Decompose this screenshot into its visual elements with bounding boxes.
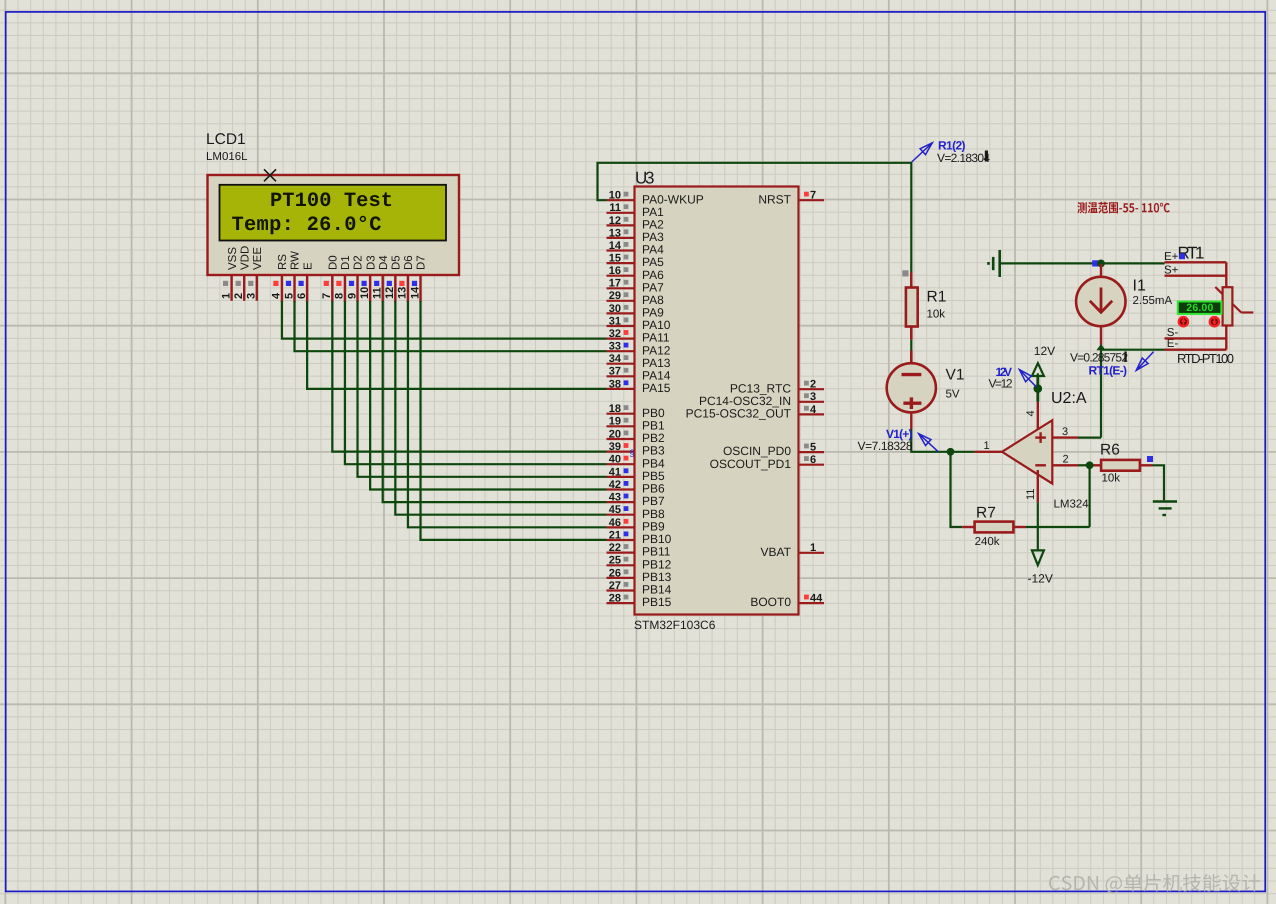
svg-text:VSS: VSS — [227, 247, 239, 270]
svg-text:5V: 5V — [946, 388, 960, 400]
LCD pin 5 RW — [283, 251, 301, 302]
U3 pin 4 PC15-OSC32_OUT — [686, 404, 824, 421]
svg-text:25: 25 — [609, 555, 621, 567]
voltage probe arrow V1(+) — [919, 434, 938, 452]
svg-text:240k: 240k — [975, 536, 1000, 548]
wire pin3 to RT1(E-) net — [1078, 437, 1101, 439]
voltage probe arrow RT1(E-) — [1136, 352, 1153, 371]
U2:A pin 3 stub (+) — [1052, 436, 1078, 438]
svg-text:28: 28 — [609, 593, 621, 605]
svg-text:LM324: LM324 — [1054, 499, 1090, 511]
LCD origin X marker — [264, 169, 276, 181]
svg-text:D3: D3 — [365, 255, 377, 270]
ground symbol left (E+ rail) — [987, 250, 1000, 277]
svg-text:R6: R6 — [1100, 442, 1120, 459]
svg-text:V=0.285752: V=0.285752 — [1070, 351, 1128, 365]
wire LCD E to PA15 — [307, 301, 606, 389]
svg-text:-12V: -12V — [1028, 572, 1053, 586]
U3 pin 42 PB6 — [607, 479, 666, 496]
svg-text:43: 43 — [609, 492, 621, 504]
svg-text:40: 40 — [609, 454, 621, 466]
blue terminal square at RT1 E+ — [1179, 253, 1185, 259]
svg-text:10: 10 — [609, 190, 621, 202]
wire PA0 net to R1 (node R1(2)) — [598, 163, 912, 288]
svg-text:V=2.18304: V=2.18304 — [937, 151, 990, 165]
LCD pin 6 E — [296, 262, 314, 302]
svg-text:8: 8 — [334, 293, 346, 299]
svg-text:5: 5 — [283, 293, 295, 299]
svg-text:E-: E- — [1167, 338, 1179, 350]
svg-text:13: 13 — [397, 287, 409, 299]
svg-text:Temp: 26.0°C: Temp: 26.0°C — [232, 214, 382, 237]
RT1 up button — [1179, 317, 1188, 326]
U3 pin 3 PC14-OSC32_IN — [699, 391, 824, 408]
junction dot V1(+) node — [947, 448, 955, 456]
svg-text:45: 45 — [609, 504, 621, 516]
svg-text:12V: 12V — [1034, 344, 1055, 358]
LCD pin 12 D5 — [384, 255, 402, 302]
svg-text:2: 2 — [1063, 454, 1069, 466]
U3 pin 26 PB13 — [607, 567, 672, 584]
svg-text:16: 16 — [609, 265, 621, 277]
svg-text:3: 3 — [1062, 426, 1068, 438]
svg-text:41: 41 — [609, 466, 621, 478]
RT1 RTD-PT100 body — [1165, 262, 1254, 349]
svg-text:1: 1 — [220, 293, 232, 299]
svg-text:29: 29 — [609, 290, 621, 302]
RT1 down button — [1210, 317, 1219, 326]
svg-text:39: 39 — [609, 441, 621, 453]
svg-text:RT1: RT1 — [1178, 243, 1205, 262]
LCD pin 4 RS — [271, 254, 289, 302]
battery V1 5V — [887, 363, 936, 412]
V1 bottom pin stub — [910, 412, 912, 429]
U3 pin 44 BOOT0 — [750, 593, 824, 610]
svg-text:13: 13 — [609, 227, 621, 239]
svg-text:U3: U3 — [635, 169, 655, 188]
svg-text:21: 21 — [609, 529, 621, 541]
wire I1 bottom to E- node — [1100, 345, 1102, 350]
LCD pin 10 D3 — [359, 255, 377, 302]
svg-text:19: 19 — [609, 416, 621, 428]
svg-text:OSCOUT_PD1: OSCOUT_PD1 — [710, 457, 792, 471]
svg-text:11: 11 — [1025, 489, 1037, 500]
svg-text:LM016L: LM016L — [206, 151, 248, 163]
U3 pin 25 PB12 — [607, 555, 672, 572]
svg-text:D2: D2 — [353, 255, 365, 270]
op-amp U2:A LM324 triangle — [1002, 420, 1052, 483]
U3 pin 20 PB2 — [607, 428, 666, 445]
svg-text:34: 34 — [609, 353, 622, 365]
svg-text:RW: RW — [290, 251, 302, 270]
wire LCD D5 to PB8 — [395, 301, 606, 515]
svg-text:R1: R1 — [927, 289, 947, 306]
LCD pin 9 D2 — [346, 255, 364, 302]
svg-text:U2:A: U2:A — [1051, 390, 1087, 407]
svg-text:3: 3 — [810, 391, 816, 403]
svg-text:22: 22 — [609, 542, 621, 554]
svg-text:PT100 Test: PT100 Test — [270, 190, 393, 213]
resistor R6 10k — [1101, 460, 1140, 471]
svg-text:RTD-PT100: RTD-PT100 — [1177, 351, 1234, 366]
resistor R1 — [906, 288, 918, 327]
U2:A pin 4 stub (V+) — [1037, 402, 1039, 430]
svg-text:V=7.18328: V=7.18328 — [858, 439, 913, 453]
U2:A pin 11 stub (V-) — [1037, 470, 1039, 502]
LCD green screen — [220, 185, 447, 241]
V1 top pin stub — [910, 351, 913, 365]
ground symbol right — [1153, 502, 1177, 516]
LCD pin 14 D7 — [409, 255, 427, 302]
svg-text:5: 5 — [810, 442, 816, 454]
svg-text:1: 1 — [984, 440, 990, 452]
svg-text:RS: RS — [277, 254, 289, 270]
U3 pin 14 PA4 — [607, 240, 665, 257]
U3 pin 21 PB10 — [607, 529, 672, 546]
U3 pin 22 PB11 — [607, 542, 671, 559]
svg-text:32: 32 — [609, 328, 621, 340]
resistor R7 240k — [975, 522, 1014, 533]
U3 pin 37 PA14 — [607, 366, 671, 383]
svg-text:31: 31 — [609, 315, 621, 327]
U3 pin 39 PB3 — [607, 441, 666, 458]
LCD pin 8 D1 — [334, 255, 352, 302]
svg-text:§: § — [630, 448, 635, 458]
svg-text:V1: V1 — [946, 366, 965, 383]
svg-text:D1: D1 — [340, 255, 352, 270]
wire R1 to V1 — [910, 340, 912, 351]
svg-text:15: 15 — [609, 253, 621, 265]
R1 bottom pin stub — [910, 326, 913, 340]
svg-text:RT1(E-): RT1(E-) — [1089, 364, 1128, 378]
svg-text:VDD: VDD — [239, 246, 251, 270]
LCD pin 2 VDD — [233, 246, 251, 301]
svg-text:D5: D5 — [391, 255, 403, 270]
svg-text:11: 11 — [609, 202, 621, 214]
wire LCD RS to PA11 — [282, 301, 607, 339]
svg-text:14: 14 — [609, 240, 622, 252]
wire R7 right to pin2 node — [1026, 526, 1090, 528]
svg-text:7: 7 — [810, 190, 816, 202]
wire LCD D7 to PB10 — [421, 301, 607, 540]
U2:A output pin 1 stub — [975, 451, 1002, 453]
wire LCD RW to PA12 — [295, 301, 607, 351]
U3 pin 41 PB5 — [607, 466, 666, 483]
R6 left pin stub — [1092, 464, 1102, 466]
svg-text:26.00: 26.00 — [1186, 302, 1213, 314]
svg-text:LCD1: LCD1 — [206, 131, 246, 148]
svg-text:46: 46 — [609, 517, 621, 529]
RT1 temperature display 26.00 — [1178, 302, 1222, 315]
U3 pin 46 PB9 — [607, 517, 666, 534]
svg-text:D4: D4 — [378, 255, 390, 270]
U3 pin 13 PA3 — [607, 227, 665, 244]
svg-text:9: 9 — [346, 293, 358, 299]
svg-text:10k: 10k — [1102, 473, 1121, 485]
svg-text:6: 6 — [810, 454, 816, 466]
svg-text:D7: D7 — [416, 255, 428, 270]
junction dot 12V probe point — [1034, 384, 1043, 393]
junction dot pin2 node — [1086, 461, 1094, 469]
svg-text:S-: S- — [1167, 327, 1179, 339]
svg-text:37: 37 — [609, 366, 621, 378]
svg-text:PB15: PB15 — [642, 595, 672, 609]
svg-text:7: 7 — [321, 293, 333, 299]
svg-text:18: 18 — [609, 403, 621, 415]
LCD pin 11 D4 — [372, 255, 390, 302]
LCD pin 1 VSS — [220, 247, 238, 301]
U3 pin 31 PA10 — [607, 315, 671, 332]
svg-text:12: 12 — [609, 215, 621, 227]
U3 pin 6 OSCOUT_PD1 — [710, 454, 824, 471]
U3 pin 28 PB15 — [607, 593, 672, 610]
svg-text:10: 10 — [359, 287, 371, 299]
wire pin11 to -12V power — [1037, 502, 1039, 550]
voltage probe arrow R1(2) — [912, 143, 933, 162]
svg-text:26: 26 — [609, 567, 621, 579]
wire LCD D4 to PB7 — [383, 301, 607, 502]
svg-text:R7: R7 — [976, 505, 996, 522]
svg-text:12: 12 — [384, 287, 396, 299]
svg-text:NRST: NRST — [758, 192, 791, 206]
svg-text:BOOT0: BOOT0 — [750, 595, 791, 609]
U3 pin 5 OSCIN_PD0 — [723, 442, 824, 459]
U3 pin 1 VBAT — [761, 542, 824, 559]
svg-text:44: 44 — [810, 593, 823, 605]
U3 pin 15 PA5 — [607, 253, 665, 270]
svg-text:V=12: V=12 — [989, 377, 1013, 391]
U3 pin 18 PB0 — [607, 403, 666, 420]
svg-text:17: 17 — [609, 278, 621, 290]
svg-text:2.55mA: 2.55mA — [1133, 295, 1173, 307]
wire pin2 to R6/R7 node — [1078, 464, 1090, 466]
+12V power symbol — [1032, 363, 1044, 402]
voltage probe arrow 12V — [1019, 370, 1036, 388]
U3 STM32F103C6 body — [635, 187, 799, 615]
wire R6 right to ground — [1153, 465, 1165, 500]
U3 pin 12 PA2 — [607, 215, 665, 232]
blue terminal square on E+ wire — [1092, 260, 1098, 266]
text cursor after V=0.285752 — [1124, 352, 1126, 363]
U3 pin 10 PA0-WKUP — [607, 190, 704, 207]
U3 pin 29 PA8 — [607, 290, 665, 307]
svg-text:3: 3 — [246, 293, 258, 299]
svg-text:14: 14 — [409, 286, 421, 299]
svg-text:D0: D0 — [328, 255, 340, 270]
wire LCD D6 to PB9 — [408, 301, 607, 527]
R1 pin 1 gray square marker — [902, 270, 908, 276]
LCD pin 7 D0 — [321, 255, 339, 302]
-12V power symbol — [1032, 550, 1044, 565]
svg-text:VEE: VEE — [252, 247, 264, 270]
CSDN watermark — [1049, 874, 1260, 893]
U3 pin 17 PA7 — [607, 278, 665, 295]
R1 top pin stub — [910, 272, 912, 289]
wire LCD D3 to PB6 — [370, 301, 606, 490]
svg-text:42: 42 — [609, 479, 621, 491]
svg-text:38: 38 — [609, 378, 621, 390]
svg-text:4: 4 — [810, 404, 817, 416]
svg-text:STM32F103C6: STM32F103C6 — [634, 618, 716, 632]
wire ground to I1 top and RT1 E+ — [1000, 262, 1165, 264]
svg-text:4: 4 — [1025, 410, 1037, 416]
svg-text:I1: I1 — [1133, 278, 1146, 295]
wire E- node to RT1 E- — [1101, 349, 1165, 351]
wire LCD D0 to PB3 — [332, 301, 606, 452]
svg-text:D6: D6 — [403, 255, 415, 270]
U3 pin 7 NRST — [758, 190, 824, 207]
svg-text:VBAT: VBAT — [761, 545, 792, 559]
U3 pin 27 PB14 — [607, 580, 672, 597]
svg-text:10k: 10k — [927, 309, 946, 321]
U3 pin 19 PB1 — [607, 416, 666, 433]
U3 pin 32 PA11 — [607, 328, 670, 345]
svg-text:20: 20 — [609, 428, 621, 440]
R6 right pin stub — [1140, 464, 1153, 466]
svg-text:PA15: PA15 — [642, 381, 671, 395]
junction triangle marker E- node — [1096, 344, 1105, 350]
annotation 测温范围-55- 110°C — [1077, 202, 1170, 214]
svg-text:11: 11 — [372, 287, 384, 299]
I1 bottom pin stub — [1100, 327, 1102, 345]
wire pin4 to +12V power — [1037, 373, 1039, 401]
svg-text:2: 2 — [810, 379, 816, 391]
wire pin2 node down to R7 — [1088, 465, 1090, 527]
svg-text:33: 33 — [609, 341, 621, 353]
LCD pin 3 VEE — [246, 247, 264, 301]
svg-text:2: 2 — [233, 293, 245, 299]
U3 pin 11 PA1 — [607, 202, 665, 219]
svg-text:E: E — [302, 262, 314, 270]
svg-text:30: 30 — [609, 303, 621, 315]
junction dot I1 top node — [1097, 260, 1105, 268]
U3 pin 40 PB4 — [607, 454, 666, 471]
U3 pin 34 PA13 — [607, 353, 671, 370]
U3 pin 33 PA12 — [607, 341, 671, 358]
wire LCD D2 to PB5 — [358, 301, 607, 477]
svg-text:1: 1 — [810, 542, 816, 554]
R7 left pin stub — [962, 526, 974, 528]
LCD LM016L body — [208, 175, 460, 275]
wire LCD D1 to PB4 — [345, 301, 607, 464]
U3 pin 45 PB8 — [607, 504, 666, 521]
U2:A pin 2 stub (-) — [1052, 464, 1078, 466]
wire V1 to op-amp output node V1(+) — [911, 429, 974, 452]
U3 pin 38 PA15 — [607, 378, 671, 395]
svg-text:PC15-OSC32_OUT: PC15-OSC32_OUT — [686, 407, 792, 421]
wire E- node down to op-amp pin3 — [1100, 350, 1102, 438]
LCD pin 13 D6 — [397, 255, 415, 302]
svg-text:6: 6 — [296, 293, 308, 299]
U3 pin 16 PA6 — [607, 265, 665, 282]
current source I1 2.55mA — [1076, 277, 1125, 326]
U3 pin 2 PC13_RTC — [730, 379, 824, 396]
wire V1(+) node down to R7 left — [951, 452, 963, 527]
blue terminal square at R6 net — [1147, 456, 1153, 462]
I1 top pin stub — [1100, 264, 1102, 279]
svg-text:27: 27 — [609, 580, 621, 592]
svg-text:4: 4 — [271, 292, 283, 299]
U3 pin 30 PA9 — [607, 303, 665, 320]
R7 right pin stub — [1013, 526, 1026, 528]
U3 pin 43 PB7 — [607, 492, 666, 509]
text cursor after V=2.18304 — [985, 151, 988, 162]
